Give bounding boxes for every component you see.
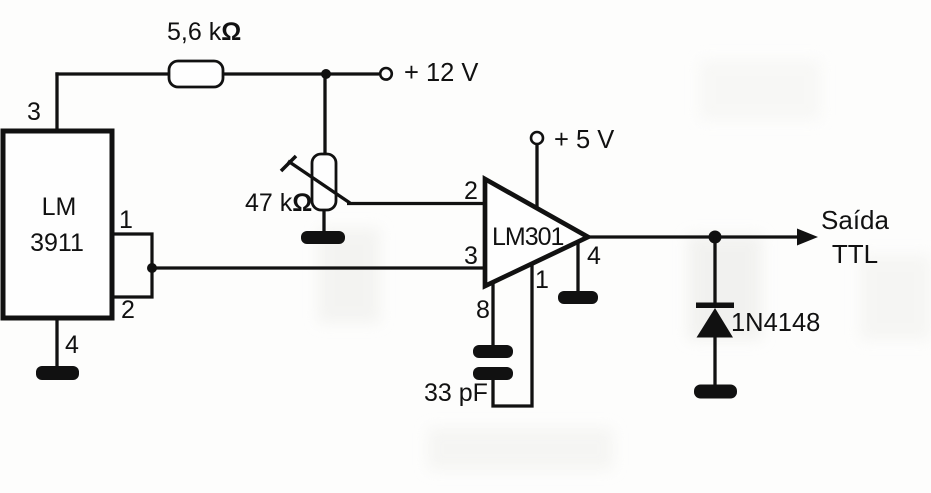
ground under trimpot (301, 231, 345, 244)
terminal +5V open circle (531, 126, 614, 154)
wire op-amp pin 8 down to capacitor (476, 282, 493, 346)
svg-text:3: 3 (27, 98, 41, 126)
svg-text:2: 2 (121, 296, 135, 324)
wire op-amp pin 4 to ground (578, 242, 601, 292)
svg-text:+ 12 V: + 12 V (404, 59, 478, 87)
resistor R1 5,6 kOhm (167, 18, 241, 87)
wire trimpot bottom to ground (322, 210, 325, 234)
wire bracket node to op-amp pin 3 (152, 266, 485, 269)
svg-text:1: 1 (119, 206, 133, 234)
node junction dot at +12V rail (321, 69, 331, 79)
svg-text:LM: LM (42, 193, 77, 221)
wire diode to ground (713, 337, 716, 386)
terminal +12V open circle (380, 59, 478, 87)
svg-text:2: 2 (464, 177, 478, 205)
wire output node down to diode (713, 237, 716, 305)
wire top horizontal to resistor (55, 72, 169, 75)
wire LM3911 pin 4 to ground (57, 318, 79, 368)
wire +5V to op-amp top edge (535, 144, 538, 209)
wire capacitor bottom around to op-amp pin 1 (493, 264, 549, 406)
svg-text:1N4148: 1N4148 (731, 309, 820, 337)
ground under diode (694, 385, 737, 399)
svg-text:4: 4 (587, 242, 601, 270)
svg-text:47 kΩ: 47 kΩ (245, 189, 312, 217)
IC U1 LM3911 box (3, 131, 112, 318)
wire +12V node down to trimpot (323, 74, 326, 155)
output labels Saida TTL (821, 205, 889, 269)
diode D1 1N4148 (696, 303, 820, 338)
svg-text:TTL: TTL (832, 239, 878, 269)
node junction dot on bracket (147, 263, 157, 273)
output wire from op-amp to arrow (588, 235, 801, 238)
scan smudge background patches (318, 60, 931, 470)
ground under LM3911 (36, 366, 79, 380)
op-amp input pin labels 2 and 3 (464, 177, 478, 270)
ground under op-amp pin 4 (558, 291, 598, 304)
trimpot P1 47 kOhm (245, 154, 350, 217)
output arrowhead (797, 229, 818, 246)
svg-text:1: 1 (535, 266, 549, 294)
op-amp U2 LM301 triangle (485, 179, 588, 286)
svg-text:8: 8 (476, 296, 490, 324)
node junction dot on output (709, 231, 722, 244)
svg-text:+ 5 V: + 5 V (554, 126, 614, 154)
svg-text:LM301: LM301 (492, 223, 564, 251)
wire pin3 vertical (55, 72, 58, 131)
pins 1-2 bracket of LM3911 (112, 206, 152, 324)
svg-text:Saída: Saída (821, 205, 889, 235)
capacitor C1 33 pF (424, 345, 513, 407)
wire resistor to +12V node (223, 72, 379, 75)
wire trimpot wiper to op-amp pin 2 (347, 202, 485, 205)
svg-text:4: 4 (65, 331, 79, 359)
svg-text:3: 3 (464, 242, 478, 270)
svg-text:5,6 kΩ: 5,6 kΩ (167, 18, 241, 46)
pin 3 label (27, 98, 41, 126)
svg-text:33 pF: 33 pF (424, 379, 488, 407)
svg-text:3911: 3911 (30, 229, 84, 257)
